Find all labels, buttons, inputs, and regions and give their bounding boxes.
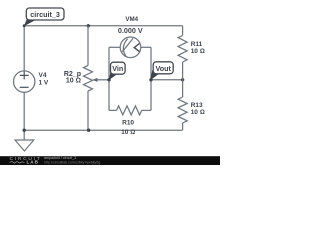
node Vout junction dot [149, 78, 152, 81]
wire Vout vertical (meter right lead down through Vout node to R10 loop) [150, 47, 152, 110]
resistor R10 [117, 106, 142, 115]
svg-text:10 Ω: 10 Ω [191, 109, 205, 116]
svg-text:10 Ω: 10 Ω [191, 48, 205, 55]
svg-text:R10: R10 [122, 120, 134, 127]
resistor R13 [178, 80, 187, 130]
svg-text:V4: V4 [39, 72, 47, 79]
svg-text:circuit_3: circuit_3 [30, 10, 60, 19]
junction dot on resistor column [181, 78, 184, 81]
label R13 10 ohm [191, 102, 205, 116]
net label tag Vout [150, 62, 173, 81]
wire bottom horizontal [24, 129, 182, 131]
potentiometer R2_p [84, 66, 98, 92]
net label tag Vin [109, 62, 125, 80]
ground [15, 129, 34, 152]
svg-text:1 V: 1 V [39, 79, 49, 86]
voltmeter VM4 [109, 37, 151, 58]
wire potentiometer top lead [87, 26, 89, 66]
resistor R11 [178, 26, 187, 80]
svg-text:Vout: Vout [155, 64, 171, 73]
voltage source V4 [14, 71, 35, 92]
svg-text:10 Ω: 10 Ω [66, 78, 81, 85]
label R11 10 ohm [191, 41, 205, 55]
wire potentiometer bottom lead [87, 91, 89, 130]
svg-text:0.000 V: 0.000 V [118, 26, 143, 35]
label V4 1 V [39, 72, 49, 86]
net label tag circuit_3 [23, 8, 64, 27]
label R2_p 10 ohm [64, 71, 81, 84]
svg-text:Vin: Vin [112, 64, 123, 73]
svg-text:10 Ω: 10 Ω [121, 129, 135, 136]
wire Vout node to resistor column [151, 79, 183, 81]
wire left vertical lower (V4 to bottom rail) [23, 92, 25, 130]
svg-text:http://circuitlab.com/c/6ky7yw: http://circuitlab.com/c/6ky7ywbjty5g [44, 160, 100, 164]
node junction on top wire at potentiometer [87, 24, 90, 27]
wire R10 loop left [109, 109, 117, 111]
wire Vin vertical (meter left lead down through Vin node to R10 loop) [108, 47, 110, 110]
junction dot pot bottom on bottom rail [87, 129, 90, 132]
wire R10 loop right [142, 109, 151, 111]
wire left vertical upper (top rail to V4) [23, 26, 25, 71]
svg-text:VM4: VM4 [125, 16, 138, 23]
svg-text:LAB: LAB [27, 160, 39, 165]
wire wiper to node Vin [94, 79, 109, 81]
node Vin junction dot [107, 78, 110, 81]
watermark bar [0, 156, 220, 165]
wire top horizontal [24, 25, 182, 27]
